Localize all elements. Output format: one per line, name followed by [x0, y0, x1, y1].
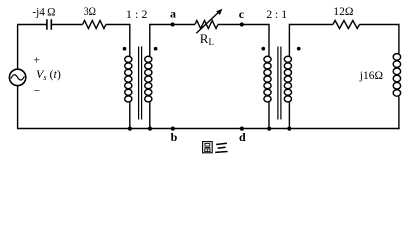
label - polarity: [34, 84, 41, 98]
label 12ohm: [333, 4, 353, 18]
label d: [239, 130, 246, 144]
node c: [240, 22, 244, 26]
dot T1 secondary polarity: [154, 47, 158, 51]
svg-text:c: c: [239, 7, 245, 21]
dot T2 primary polarity: [261, 47, 265, 51]
dot T1 primary polarity: [123, 47, 127, 51]
wire resistor to T1: [106, 24, 130, 26]
wire top segment left: [17, 24, 46, 26]
variable resistor RL: [195, 9, 223, 34]
transformer T1 primary winding: [125, 24, 132, 129]
label 1:2: [126, 7, 148, 21]
node b: [171, 127, 175, 131]
svg-text:Vs (t): Vs (t): [36, 67, 61, 82]
svg-text:1 : 2: 1 : 2: [126, 7, 148, 21]
svg-text:3Ω: 3Ω: [84, 4, 96, 18]
wire T1 to RL: [150, 24, 195, 26]
label + polarity: [33, 53, 40, 67]
node a: [171, 22, 175, 26]
svg-text:d: d: [239, 130, 246, 144]
node d: [240, 127, 244, 131]
label b: [171, 130, 178, 144]
label RL: [200, 31, 214, 47]
caption figure three (CJK drawn): [203, 142, 228, 153]
wire RL to T2: [218, 24, 269, 26]
label 2:1: [266, 7, 287, 21]
junction dot T1 primary bottom: [128, 127, 132, 131]
transformer T2 core: [278, 47, 281, 120]
resistor 12ohm: [333, 21, 360, 29]
inductor j16ohm: [393, 54, 400, 97]
junction dot T1 secondary bottom: [148, 127, 152, 131]
transformer T1 secondary winding: [145, 24, 152, 129]
svg-text:b: b: [171, 130, 178, 144]
capacitor -j4ohm: [47, 19, 51, 29]
wire bottom rail: [17, 128, 400, 130]
transformer T2 primary winding: [264, 24, 271, 129]
svg-text:-j4 Ω: -j4 Ω: [32, 4, 55, 18]
svg-text:12Ω: 12Ω: [333, 4, 353, 18]
svg-text:j16Ω: j16Ω: [359, 68, 383, 82]
svg-text:+: +: [33, 53, 40, 67]
wire right vertical top: [398, 24, 400, 54]
wire T2 to 12ohm: [289, 24, 333, 26]
junction dot T2 secondary bottom: [287, 127, 291, 131]
label 3ohm: [84, 4, 96, 18]
label a: [170, 6, 176, 20]
wire right vertical bottom: [398, 96, 400, 129]
AC source Vs: [9, 69, 25, 85]
wire cap to resistor: [51, 24, 82, 26]
dot T2 secondary polarity: [297, 47, 301, 51]
label j16ohm: [359, 68, 383, 82]
svg-text:a: a: [170, 6, 176, 20]
svg-text:2 : 1: 2 : 1: [266, 7, 287, 21]
transformer T1 core: [139, 47, 142, 120]
label Vs(t): [36, 67, 61, 82]
label -j4ohm: [32, 4, 55, 18]
resistor 3ohm: [83, 21, 106, 29]
svg-text:RL: RL: [200, 31, 214, 47]
wire left vertical (source branch): [17, 25, 19, 129]
label c: [239, 7, 245, 21]
junction dot T2 primary bottom: [267, 127, 271, 131]
svg-text:−: −: [34, 84, 41, 98]
transformer T2 secondary winding: [284, 24, 291, 129]
wire 12ohm to corner: [360, 24, 399, 26]
